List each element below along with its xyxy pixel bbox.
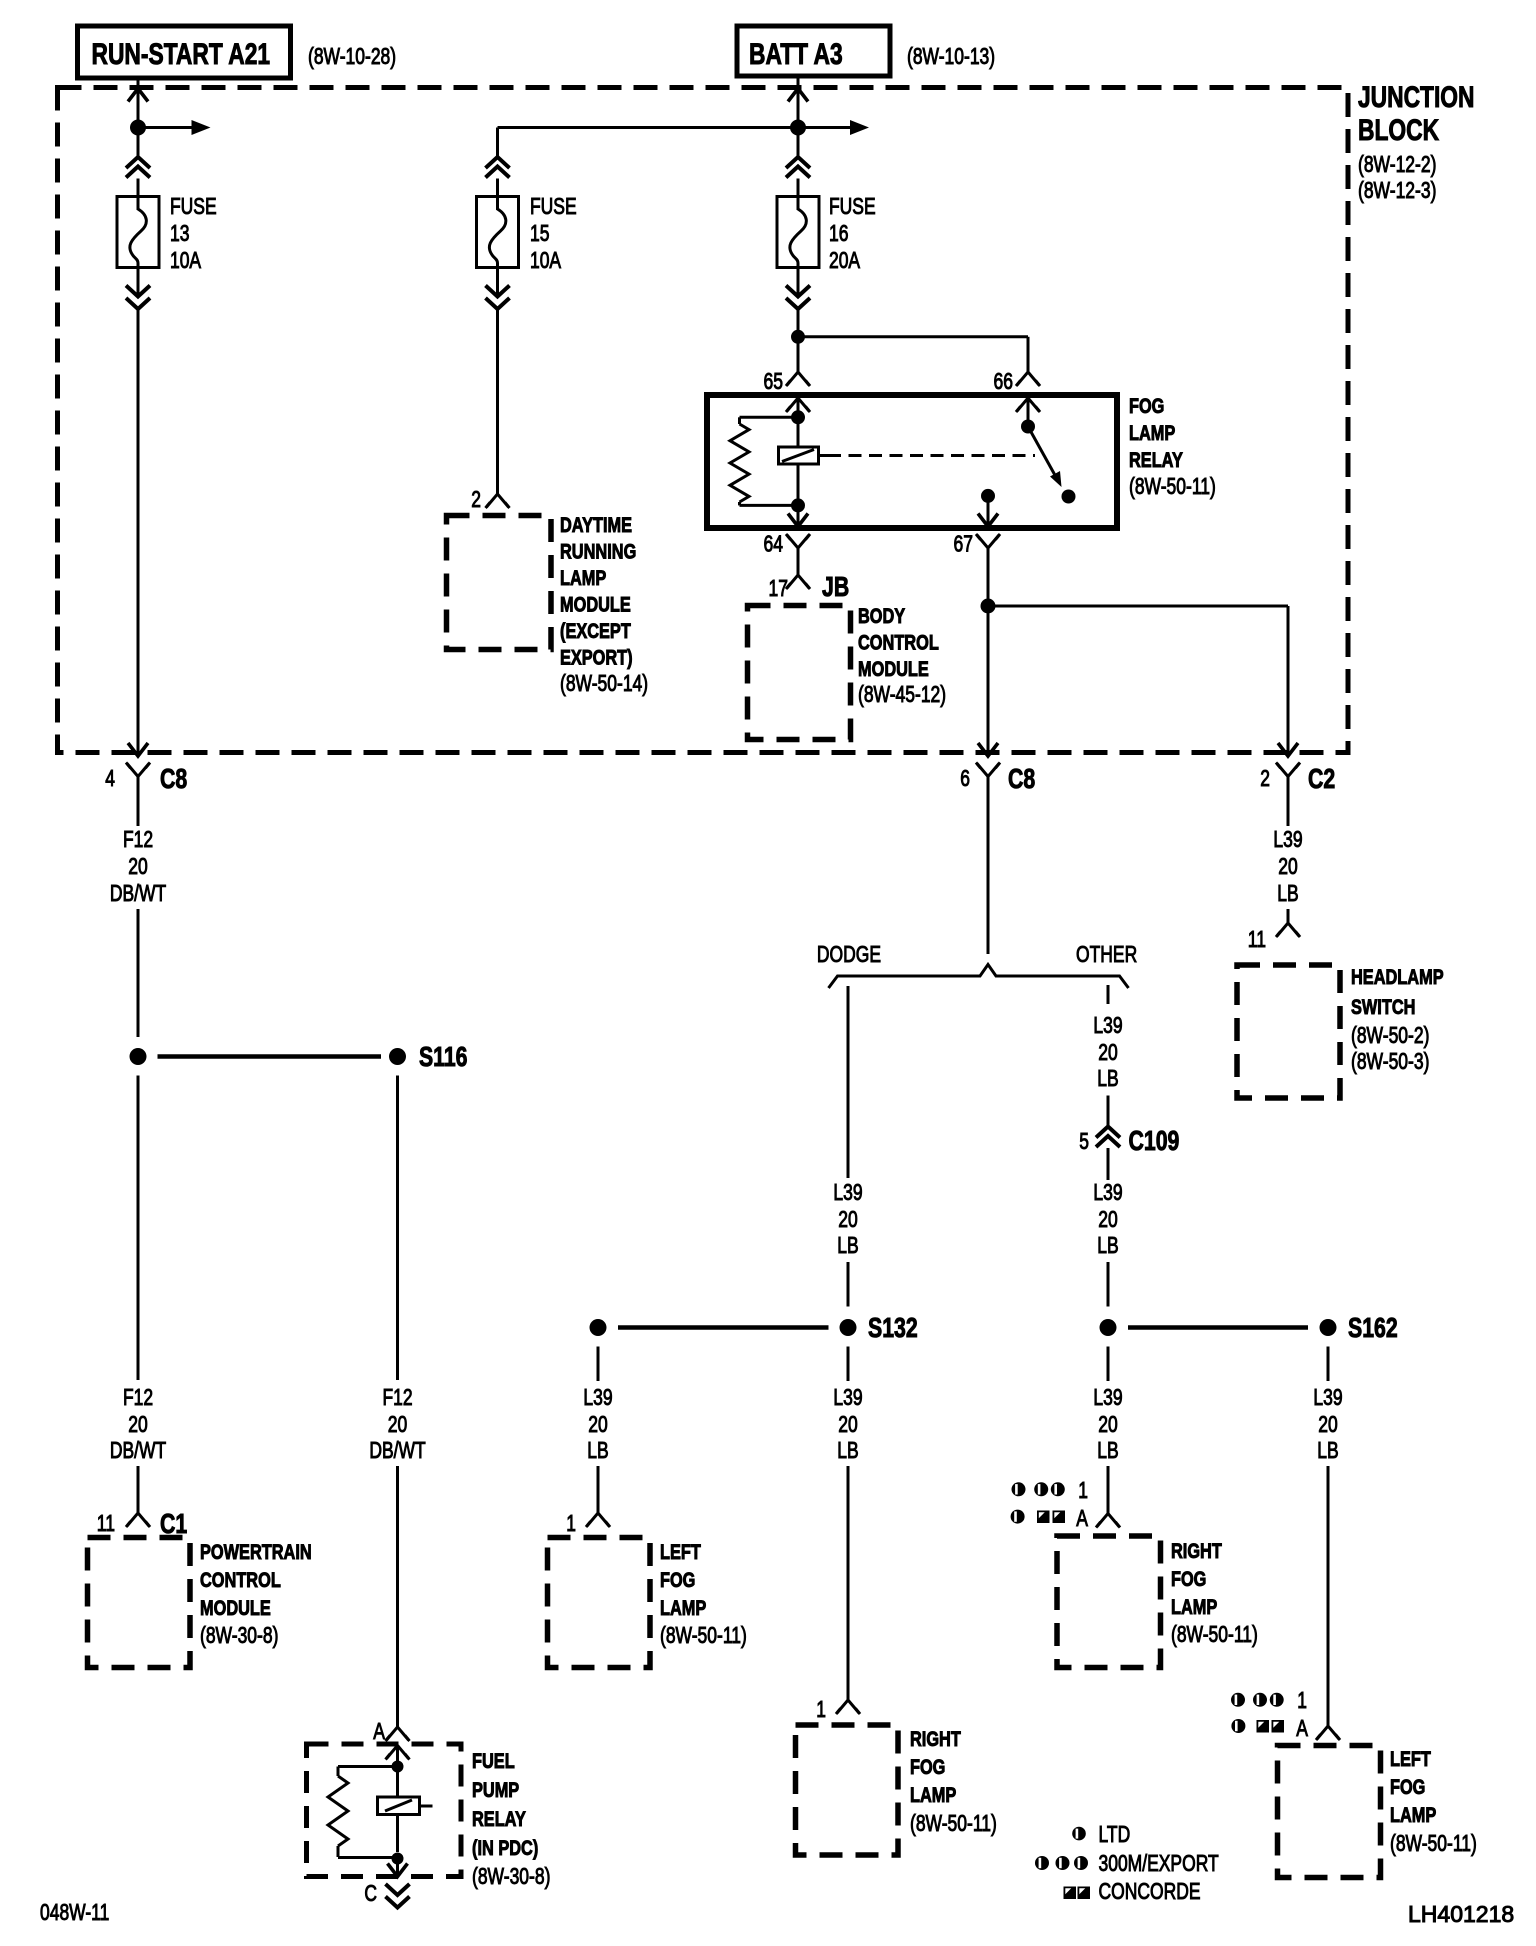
svg-text:(8W-12-3): (8W-12-3) [1358,177,1436,203]
svg-text:S162: S162 [1348,1312,1398,1343]
svg-text:EXPORT): EXPORT) [560,646,633,670]
svg-text:JB: JB [822,571,849,602]
svg-text:RIGHT: RIGHT [1171,1539,1222,1563]
svg-text:(8W-50-11): (8W-50-11) [1390,1830,1477,1856]
svg-text:(8W-50-11): (8W-50-11) [660,1622,747,1648]
svg-text:L39: L39 [583,1384,612,1410]
svg-text:FOG: FOG [660,1568,695,1592]
svg-text:(8W-45-12): (8W-45-12) [858,681,946,707]
svg-text:MODULE: MODULE [200,1596,271,1620]
svg-text:LB: LB [587,1437,608,1463]
svg-text:(8W-12-2): (8W-12-2) [1358,151,1436,177]
svg-text:(8W-10-13): (8W-10-13) [907,43,995,69]
svg-text:LTD: LTD [1099,1821,1131,1847]
svg-text:RIGHT: RIGHT [910,1727,961,1751]
svg-text:F12: F12 [123,826,153,852]
svg-text:1: 1 [1078,1477,1088,1503]
svg-text:CONCORDE: CONCORDE [1099,1878,1201,1904]
svg-text:L39: L39 [1093,1012,1122,1038]
svg-text:MODULE: MODULE [858,657,929,681]
svg-text:L39: L39 [833,1384,862,1410]
svg-text:6: 6 [960,765,970,791]
svg-text:FOG: FOG [1129,394,1164,418]
svg-text:(8W-50-11): (8W-50-11) [910,1810,997,1836]
svg-text:(8W-30-8): (8W-30-8) [200,1622,278,1648]
svg-text:SWITCH: SWITCH [1351,995,1415,1019]
svg-text:LB: LB [1317,1437,1338,1463]
svg-text:4: 4 [105,765,115,791]
svg-text:BODY: BODY [858,604,905,628]
svg-text:LEFT: LEFT [1390,1747,1431,1771]
svg-text:2: 2 [1260,765,1270,791]
svg-text:(8W-10-28): (8W-10-28) [308,43,396,69]
svg-text:C1: C1 [160,1508,187,1539]
svg-text:L39: L39 [1313,1384,1342,1410]
svg-text:S132: S132 [868,1312,918,1343]
svg-text:C8: C8 [1008,763,1035,794]
svg-text:(8W-50-14): (8W-50-14) [560,670,648,696]
svg-text:A: A [1296,1715,1308,1741]
svg-text:65: 65 [764,368,784,394]
svg-text:DAYTIME: DAYTIME [560,513,632,537]
svg-text:A: A [1076,1505,1088,1531]
svg-text:13: 13 [170,220,190,246]
svg-text:BLOCK: BLOCK [1358,114,1439,147]
svg-text:RUNNING: RUNNING [560,540,636,564]
svg-text:20A: 20A [829,247,861,273]
svg-text:L39: L39 [1273,826,1302,852]
svg-text:FOG: FOG [1390,1775,1425,1799]
svg-text:LB: LB [837,1437,858,1463]
svg-text:20: 20 [1318,1411,1338,1437]
svg-text:5: 5 [1079,1128,1089,1154]
svg-text:1: 1 [566,1510,576,1536]
svg-text:LAMP: LAMP [660,1596,706,1620]
svg-text:10A: 10A [170,247,202,273]
svg-text:(8W-50-11): (8W-50-11) [1129,473,1216,499]
svg-text:20: 20 [128,853,148,879]
svg-text:JUNCTION: JUNCTION [1358,81,1475,114]
svg-text:300M/EXPORT: 300M/EXPORT [1099,1850,1219,1876]
svg-text:(8W-30-8): (8W-30-8) [472,1863,550,1889]
svg-text:LB: LB [1277,880,1298,906]
svg-text:L39: L39 [1093,1384,1122,1410]
svg-text:CONTROL: CONTROL [858,631,939,655]
svg-text:DB/WT: DB/WT [110,1437,166,1463]
svg-text:C2: C2 [1308,763,1335,794]
svg-text:LB: LB [1097,1437,1118,1463]
svg-text:A: A [373,1718,385,1744]
svg-text:(EXCEPT: (EXCEPT [560,619,631,643]
svg-text:20: 20 [838,1206,858,1232]
svg-text:15: 15 [530,220,550,246]
svg-text:LB: LB [1097,1065,1118,1091]
svg-text:20: 20 [1278,853,1298,879]
svg-text:FUSE: FUSE [530,193,577,219]
svg-text:RELAY: RELAY [1129,448,1183,472]
svg-text:2: 2 [471,486,481,512]
svg-text:(8W-50-2): (8W-50-2) [1351,1022,1429,1048]
svg-text:048W-11: 048W-11 [40,1899,109,1925]
svg-text:20: 20 [1098,1206,1118,1232]
svg-text:LAMP: LAMP [910,1783,956,1807]
svg-text:(8W-50-11): (8W-50-11) [1171,1621,1258,1647]
svg-text:OTHER: OTHER [1076,941,1137,967]
svg-text:F12: F12 [382,1384,412,1410]
svg-text:LAMP: LAMP [560,566,606,590]
svg-text:20: 20 [588,1411,608,1437]
svg-text:DB/WT: DB/WT [110,880,166,906]
svg-text:POWERTRAIN: POWERTRAIN [200,1540,312,1564]
svg-text:BATT A3: BATT A3 [749,38,843,71]
svg-text:CONTROL: CONTROL [200,1568,281,1592]
svg-text:FUEL: FUEL [472,1749,515,1773]
svg-text:FUSE: FUSE [829,193,876,219]
svg-text:DODGE: DODGE [817,941,881,967]
svg-text:20: 20 [838,1411,858,1437]
svg-text:1: 1 [1297,1687,1307,1713]
svg-text:LB: LB [1097,1232,1118,1258]
svg-text:LAMP: LAMP [1390,1803,1436,1827]
svg-text:67: 67 [954,531,974,557]
svg-text:66: 66 [994,368,1014,394]
svg-text:1: 1 [816,1696,826,1722]
svg-text:FOG: FOG [910,1755,945,1779]
svg-text:(8W-50-3): (8W-50-3) [1351,1048,1429,1074]
svg-text:20: 20 [1098,1411,1118,1437]
svg-text:S116: S116 [419,1041,468,1072]
svg-text:MODULE: MODULE [560,593,631,617]
svg-text:17: 17 [769,575,789,601]
svg-text:C109: C109 [1129,1125,1180,1156]
svg-text:L39: L39 [833,1179,862,1205]
svg-text:F12: F12 [123,1384,153,1410]
svg-text:RUN-START A21: RUN-START A21 [92,38,271,71]
svg-text:10A: 10A [530,247,562,273]
svg-text:PUMP: PUMP [472,1778,519,1802]
svg-text:20: 20 [1098,1039,1118,1065]
svg-text:20: 20 [128,1411,148,1437]
svg-text:LB: LB [837,1232,858,1258]
svg-text:FOG: FOG [1171,1567,1206,1591]
svg-text:11: 11 [1248,926,1266,952]
svg-text:LEFT: LEFT [660,1540,701,1564]
svg-text:64: 64 [764,531,784,557]
svg-text:L39: L39 [1093,1179,1122,1205]
svg-text:11: 11 [97,1510,115,1536]
svg-text:FUSE: FUSE [170,193,217,219]
svg-text:C: C [364,1880,377,1906]
svg-text:RELAY: RELAY [472,1807,526,1831]
svg-text:HEADLAMP: HEADLAMP [1351,965,1444,989]
svg-text:LAMP: LAMP [1171,1595,1217,1619]
svg-text:(IN PDC): (IN PDC) [472,1836,538,1860]
svg-text:DB/WT: DB/WT [369,1437,425,1463]
svg-text:16: 16 [829,220,849,246]
svg-text:20: 20 [388,1411,408,1437]
svg-text:LH401218: LH401218 [1408,1901,1514,1927]
svg-text:C8: C8 [160,763,187,794]
svg-text:LAMP: LAMP [1129,421,1175,445]
